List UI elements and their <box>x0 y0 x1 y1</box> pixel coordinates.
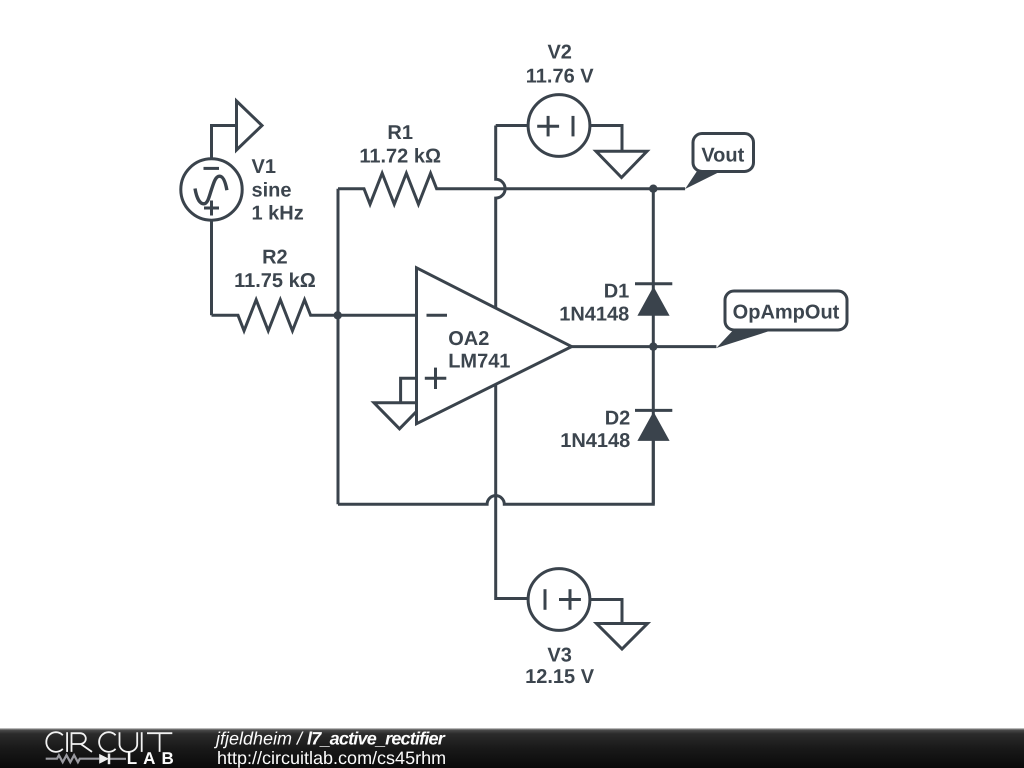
svg-text:OA2: OA2 <box>448 328 489 350</box>
svg-text:sine: sine <box>252 180 292 202</box>
svg-text:R1: R1 <box>387 122 413 144</box>
svg-text:1 kHz: 1 kHz <box>252 203 304 225</box>
svg-text:D1: D1 <box>604 281 630 303</box>
svg-text:11.72 kΩ: 11.72 kΩ <box>359 145 441 167</box>
svg-text:OpAmpOut: OpAmpOut <box>733 301 840 323</box>
svg-text:R2: R2 <box>262 247 288 269</box>
svg-text:11.75 kΩ: 11.75 kΩ <box>234 270 316 292</box>
svg-text:jfjeldheim / l7_active_rectifi: jfjeldheim / l7_active_rectifier <box>213 728 446 748</box>
svg-text:V2: V2 <box>547 42 571 64</box>
svg-text:11.76 V: 11.76 V <box>526 66 595 88</box>
svg-text:1N4148: 1N4148 <box>559 303 629 325</box>
svg-text:http://circuitlab.com/cs45rhm: http://circuitlab.com/cs45rhm <box>217 748 446 768</box>
svg-text:V3: V3 <box>547 645 571 667</box>
svg-text:1N4148: 1N4148 <box>560 430 630 452</box>
svg-text:12.15 V: 12.15 V <box>525 666 595 688</box>
svg-text:V1: V1 <box>252 156 276 178</box>
svg-text:D2: D2 <box>605 407 631 429</box>
svg-text:LM741: LM741 <box>448 351 510 373</box>
svg-text:Vout: Vout <box>701 145 744 167</box>
svg-text:LAB: LAB <box>127 749 180 768</box>
